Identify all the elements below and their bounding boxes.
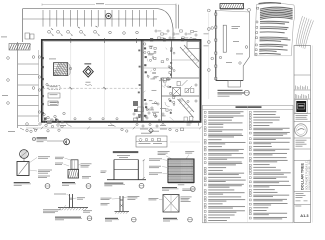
grate detail title (162, 187, 177, 188)
west property line (17, 42, 19, 128)
grate detail: grate (168, 159, 194, 183)
bubbles along bottom wall (74, 118, 76, 120)
mezz: top hatched beam (220, 4, 244, 9)
grm detail: texts (77, 196, 85, 199)
mezz: top boundary line (216, 11, 250, 13)
far left small texts (1, 36, 7, 39)
keynotes right column (249, 111, 251, 113)
guardrail detail: dim line right (143, 160, 145, 180)
wall detail 1: section (71, 160, 78, 169)
guardrail detail: text left (101, 170, 107, 173)
architect address (296, 114, 308, 117)
bottom-left corner bubbles cluster (43, 113, 45, 115)
keynotes column divider (247, 105, 249, 222)
main building outline (42, 40, 201, 122)
tree symbol in parking (106, 13, 111, 18)
wall detail 1: texts right (81, 162, 92, 165)
plate detail: texts (182, 188, 195, 191)
sheet data rows (296, 192, 304, 195)
mezz: edge rectangle (223, 25, 226, 52)
plate detail title (163, 218, 177, 219)
sheet number box (295, 205, 301, 208)
mezz: title (218, 90, 243, 91)
DOLLAR TREE rotated text (301, 159, 311, 190)
grm detail: post (70, 194, 73, 207)
column detail texts (29, 158, 37, 164)
guardrail detail: rail text (117, 154, 130, 157)
corridor cross wall y=68 (143, 67, 172, 69)
parking stalls middle line (23, 18, 157, 20)
guardrail detail: frame (114, 160, 138, 170)
west sidewalk line (38, 50, 40, 122)
hatched accessible ramp (9, 44, 30, 51)
trash pad boxes (25, 33, 30, 39)
title block outer border (294, 46, 311, 223)
grate detail: dim below (168, 183, 194, 185)
marks below wall right (187, 123, 192, 125)
scribble below diamond (86, 81, 91, 84)
architect logo (295, 100, 308, 113)
inner wall faces (43, 42, 199, 121)
guardrail detail: top label bar (113, 151, 139, 153)
warped paragraph (257, 7, 259, 9)
faint column grid lines (71, 43, 105, 121)
sales floor diamond symbol (83, 66, 93, 77)
mezz: labels (232, 25, 241, 28)
wall detail 1: texts left (55, 156, 64, 159)
vents on top wall right (150, 38, 153, 41)
mezz: bubbles (211, 27, 214, 30)
keynotes left column (204, 111, 206, 113)
legend box (136, 136, 167, 147)
guardrail detail title (104, 183, 123, 184)
short dim marks right of legend (170, 141, 200, 143)
warped keynotes: borders (255, 5, 257, 56)
bubbles on dim line (26, 129, 28, 131)
column detail title (14, 182, 30, 183)
parking lot left entry corner (22, 9, 24, 42)
west keynote bubbles (7, 57, 10, 60)
grm detail: top text (54, 193, 66, 196)
room at building top right (187, 42, 200, 49)
interior wall upper x=171.5 (171, 41, 173, 79)
parking top boundary line (23, 8, 159, 10)
right zone room walls (162, 77, 200, 79)
stair flight upper right (180, 45, 199, 68)
grate detail: texts left (149, 157, 162, 160)
mezz: column markers (215, 13, 217, 15)
column detail: column square (17, 162, 29, 176)
dashed line across sales floor (43, 87, 142, 89)
grm detail title (55, 217, 81, 218)
curled page corner strands (296, 16, 303, 46)
wall detail 1 title (62, 182, 75, 183)
keynote bubbles left wall (38, 56, 40, 58)
mezz: keynote rail line (208, 13, 210, 99)
grate detail: texts above (158, 150, 170, 153)
backroom annotation marks (144, 51, 146, 53)
column grid ticks on top wall (70, 38, 72, 43)
mezz: left wall (215, 10, 217, 80)
warped entries (255, 21, 291, 56)
sheet trim edge (311, 46, 313, 223)
below seal text (296, 139, 307, 142)
door marks below bottom wall (66, 122, 116, 126)
issue ticks row1 (295, 86, 297, 90)
restroom fixtures (185, 89, 188, 93)
stair flight lower right (178, 98, 195, 118)
title block dividers (294, 74, 311, 76)
warped keynotes: title (259, 2, 282, 5)
dim line below building (26, 127, 201, 129)
svg-text:DOLLAR TREE: DOLLAR TREE (301, 163, 305, 190)
parking stall ticks (42, 10, 44, 27)
svg-text:1000 MAIN ST, MILFORD, OHIO: 1000 MAIN ST, MILFORD, OHIO (308, 159, 311, 190)
marks on left wall (41, 57, 44, 59)
cash wrap cluster (133, 101, 138, 106)
keynotes table border (202, 105, 293, 222)
FLOOR PLAN drawing title (32, 137, 35, 140)
small marks below stalls (51, 26, 98, 30)
wall detail 2: wall (120, 196, 123, 211)
west parking stall ticks (18, 63, 39, 65)
compactor crosshatched box (54, 63, 68, 76)
column detail: hatched circle (20, 150, 29, 159)
seal (295, 124, 307, 136)
wall detail 2 title (105, 218, 118, 219)
mezz: right wall and step (243, 12, 250, 80)
dimension line above parking (42, 4, 176, 6)
door swings right rooms (182, 80, 193, 92)
drive curb return arc right (158, 9, 173, 40)
left wall fixture boxes (48, 85, 60, 89)
issue ticks row2 (294, 94, 296, 98)
symbols row above legend box (149, 128, 153, 133)
plate detail: square (163, 195, 179, 213)
elevator X box (173, 88, 181, 96)
wall detail 2: texts (101, 197, 112, 200)
interior wall x=142 (140, 41, 142, 122)
right parking verticals (175, 5, 177, 29)
interior wall lower x=161.5 (161, 78, 163, 122)
keynotes title bar (202, 108, 293, 110)
marks along interior walls (144, 47, 146, 49)
equipment cluster behind building (155, 30, 157, 32)
north arrow (64, 139, 70, 145)
svg-text:A1.3: A1.3 (300, 213, 309, 218)
bubbles below bottom wall center (136, 123, 138, 125)
bubbles with arrows in drive aisle (48, 30, 51, 33)
